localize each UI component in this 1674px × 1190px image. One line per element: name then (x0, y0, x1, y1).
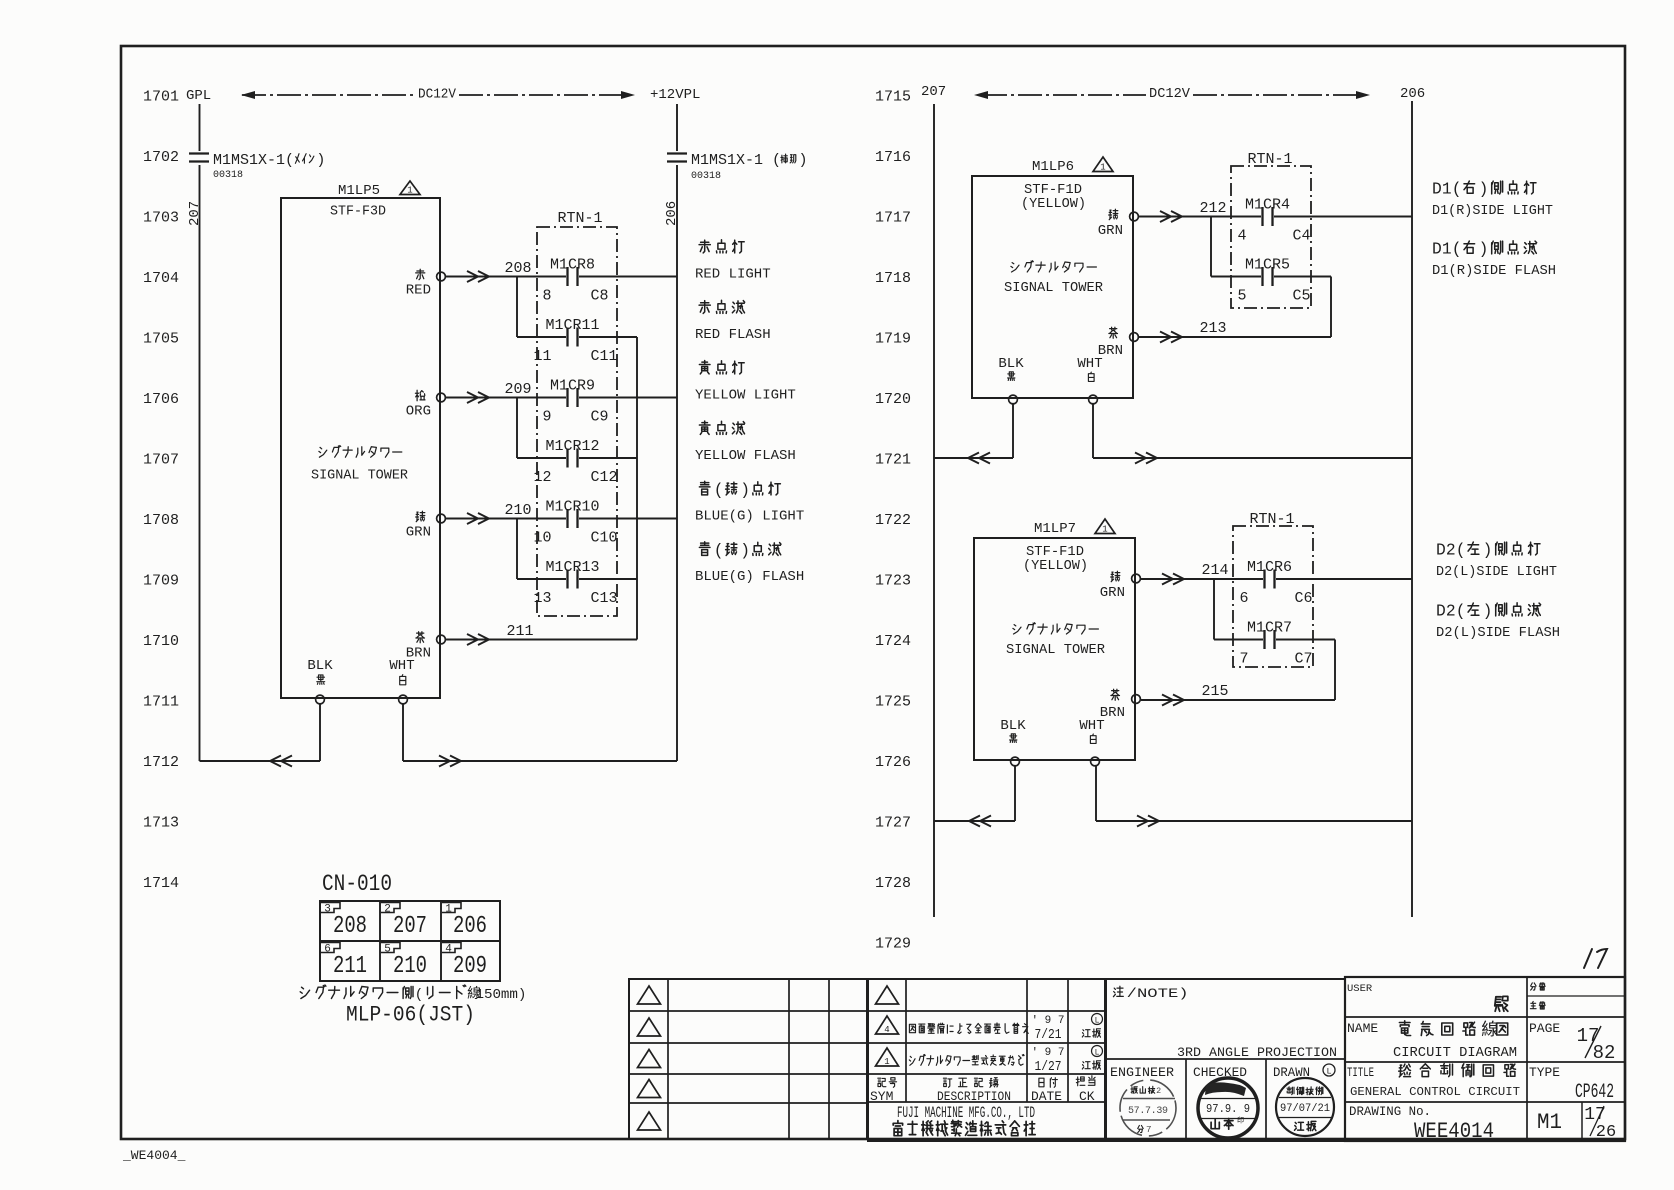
svg-text:GRN: GRN (406, 525, 431, 541)
svg-text:206: 206 (1400, 86, 1425, 102)
svg-text:): ) (740, 480, 750, 499)
svg-text:BLUE(G) FLASH: BLUE(G) FLASH (695, 569, 804, 585)
svg-text:1721: 1721 (875, 452, 911, 469)
svg-text:SIGNAL TOWER: SIGNAL TOWER (1006, 642, 1106, 658)
svg-text:RED LIGHT: RED LIGHT (695, 267, 771, 283)
svg-text:8: 8 (542, 288, 551, 305)
svg-text:M1LP7: M1LP7 (1034, 521, 1076, 537)
svg-text:00318: 00318 (691, 171, 721, 182)
svg-text:M1CR13: M1CR13 (545, 559, 599, 576)
svg-text:57.7.39: 57.7.39 (1128, 1106, 1168, 1117)
svg-text:1718: 1718 (875, 270, 911, 287)
svg-text:): ) (316, 152, 325, 169)
svg-text:7: 7 (1239, 651, 1248, 668)
svg-text:5: 5 (384, 944, 391, 956)
svg-text:(: ( (1452, 239, 1462, 258)
svg-text:CIRCUIT DIAGRAM: CIRCUIT DIAGRAM (1393, 1045, 1517, 1061)
svg-text:3RD ANGLE PROJECTION: 3RD ANGLE PROJECTION (1177, 1045, 1337, 1060)
svg-text:10: 10 (533, 530, 551, 547)
svg-text:97/07/21: 97/07/21 (1280, 1103, 1330, 1115)
svg-text:1707: 1707 (143, 452, 179, 469)
svg-text:C7: C7 (1295, 651, 1313, 668)
svg-text:GRN: GRN (1098, 223, 1123, 239)
svg-text:WHT: WHT (1079, 718, 1104, 734)
svg-text:m: m (509, 987, 518, 1003)
svg-text:C5: C5 (1293, 288, 1311, 305)
svg-text:C9: C9 (591, 409, 609, 426)
svg-text:C8: C8 (591, 288, 609, 305)
svg-text:00318: 00318 (213, 170, 243, 181)
svg-text:+12VPL: +12VPL (650, 87, 700, 103)
svg-text:D: D (1432, 239, 1442, 258)
svg-text:2: 2 (384, 904, 391, 916)
svg-text:RTN-1: RTN-1 (557, 210, 602, 227)
svg-text:4: 4 (884, 1025, 889, 1035)
svg-text:26: 26 (1596, 1123, 1616, 1142)
svg-text:GRN: GRN (1100, 585, 1125, 601)
svg-text:82: 82 (1593, 1042, 1616, 1064)
svg-text:M1CR8: M1CR8 (550, 257, 595, 274)
svg-text:L: L (1095, 1017, 1100, 1026)
svg-text:DRAWING No.: DRAWING No. (1349, 1105, 1431, 1119)
svg-text:m: m (501, 987, 510, 1003)
svg-text:C13: C13 (591, 590, 618, 607)
svg-text:BLK: BLK (1000, 718, 1026, 734)
svg-text:1729: 1729 (875, 936, 911, 953)
svg-text:1: 1 (1100, 163, 1105, 173)
svg-text:209: 209 (504, 381, 531, 398)
svg-text:' 9 7: ' 9 7 (1031, 1015, 1064, 1027)
svg-text:(YELLOW): (YELLOW) (1021, 196, 1086, 212)
svg-text:(YELLOW): (YELLOW) (1023, 558, 1088, 574)
svg-text:1705: 1705 (143, 331, 179, 348)
svg-text:M1LP5: M1LP5 (338, 183, 380, 199)
svg-text:1709: 1709 (143, 573, 179, 590)
svg-text:1704: 1704 (143, 270, 179, 287)
svg-text:SYM: SYM (870, 1089, 893, 1104)
svg-text:L: L (1095, 1049, 1100, 1058)
svg-text:215: 215 (1201, 683, 1228, 700)
svg-text:1708: 1708 (143, 512, 179, 529)
svg-text:_WE4004_: _WE4004_ (122, 1148, 186, 1163)
svg-text:WHT: WHT (389, 658, 414, 674)
svg-text:D: D (1432, 179, 1442, 198)
svg-text:213: 213 (1199, 320, 1226, 337)
svg-text:FUJI MACHINE MFG.CO., LTD: FUJI MACHINE MFG.CO., LTD (897, 1104, 1035, 1122)
svg-text:1726: 1726 (875, 754, 911, 771)
svg-text:RED: RED (406, 283, 431, 299)
svg-text:7: 7 (1146, 1124, 1152, 1135)
svg-text:1723: 1723 (875, 573, 911, 590)
svg-text:RED FLASH: RED FLASH (695, 327, 771, 343)
svg-text:1: 1 (1102, 525, 1107, 535)
svg-text:208: 208 (333, 913, 367, 940)
svg-text:1: 1 (884, 1057, 889, 1067)
svg-text:D1(R)SIDE LIGHT: D1(R)SIDE LIGHT (1432, 203, 1553, 219)
svg-text:DC12V: DC12V (1149, 87, 1191, 102)
svg-text:DATE: DATE (1031, 1089, 1062, 1104)
svg-text:D2(L)SIDE LIGHT: D2(L)SIDE LIGHT (1436, 564, 1557, 580)
svg-text:12: 12 (533, 469, 551, 486)
svg-text:1716: 1716 (875, 149, 911, 166)
svg-text:1710: 1710 (143, 633, 179, 650)
svg-text:L: L (1326, 1067, 1331, 1077)
svg-text:3: 3 (324, 904, 331, 916)
svg-text:M1MS1X-1(: M1MS1X-1( (213, 152, 294, 169)
svg-text:1720: 1720 (875, 391, 911, 408)
svg-text:YELLOW LIGHT: YELLOW LIGHT (695, 388, 796, 404)
svg-text:M1CR4: M1CR4 (1245, 197, 1290, 214)
svg-text:1719: 1719 (875, 331, 911, 348)
svg-text:4: 4 (445, 944, 452, 956)
svg-text:97.9. 9: 97.9. 9 (1206, 1103, 1250, 1116)
svg-text:M1LP6: M1LP6 (1032, 159, 1074, 175)
svg-text:1728: 1728 (875, 875, 911, 892)
svg-text:1713: 1713 (143, 815, 179, 832)
svg-text:): ) (1483, 540, 1493, 559)
svg-text:' 9 7: ' 9 7 (1031, 1047, 1064, 1059)
svg-text:5: 5 (484, 987, 493, 1003)
svg-text:CN-010: CN-010 (322, 871, 392, 897)
svg-text:7/21: 7/21 (1035, 1027, 1062, 1043)
svg-text:1: 1 (407, 186, 412, 196)
svg-text:D2(L)SIDE FLASH: D2(L)SIDE FLASH (1436, 625, 1560, 641)
svg-text:1: 1 (476, 987, 485, 1003)
svg-text:1712: 1712 (143, 754, 179, 771)
svg-text:(: ( (415, 987, 424, 1003)
svg-text:印: 印 (1237, 1117, 1244, 1126)
svg-text:214: 214 (1201, 562, 1228, 579)
svg-text:BLK: BLK (307, 658, 333, 674)
svg-text:D: D (1436, 601, 1446, 620)
svg-text:GENERAL CONTROL CIRCUIT: GENERAL CONTROL CIRCUIT (1350, 1085, 1520, 1099)
svg-text:1706: 1706 (143, 391, 179, 408)
svg-text:(: ( (714, 541, 724, 560)
svg-text:2: 2 (1156, 1086, 1161, 1096)
svg-text:M1: M1 (1537, 1110, 1562, 1135)
svg-text:GPL: GPL (186, 88, 211, 104)
svg-text:4: 4 (1237, 228, 1246, 245)
svg-text:M1CR11: M1CR11 (545, 317, 599, 334)
svg-text:M1CR12: M1CR12 (545, 438, 599, 455)
svg-text:WEE4014: WEE4014 (1414, 1119, 1494, 1144)
svg-text:1725: 1725 (875, 694, 911, 711)
svg-text:6: 6 (1239, 590, 1248, 607)
svg-text:M1MS1X-1 (: M1MS1X-1 ( (691, 152, 781, 169)
svg-text:USER: USER (1347, 983, 1373, 995)
svg-text:210: 210 (504, 502, 531, 519)
svg-text:6: 6 (324, 944, 331, 956)
svg-text:BLK: BLK (998, 356, 1024, 372)
svg-text:9: 9 (542, 409, 551, 426)
svg-text:ORG: ORG (406, 404, 431, 420)
svg-text:): ) (1479, 179, 1489, 198)
svg-text:C12: C12 (591, 469, 618, 486)
svg-text:WHT: WHT (1077, 356, 1102, 372)
svg-text:M1CR7: M1CR7 (1247, 620, 1292, 637)
svg-text:C10: C10 (591, 530, 618, 547)
svg-text:(: ( (1456, 540, 1466, 559)
svg-text:207: 207 (393, 913, 427, 940)
svg-text:M1CR5: M1CR5 (1245, 257, 1290, 274)
svg-text:1722: 1722 (875, 512, 911, 529)
svg-text:(: ( (1456, 601, 1466, 620)
svg-text:M1CR6: M1CR6 (1247, 559, 1292, 576)
svg-text:PAGE: PAGE (1529, 1021, 1560, 1036)
svg-text:0: 0 (493, 987, 502, 1003)
svg-text:1711: 1711 (143, 694, 179, 711)
svg-text:): ) (1479, 239, 1489, 258)
svg-text:212: 212 (1199, 200, 1226, 217)
svg-text:MLP-06(JST): MLP-06(JST) (346, 1003, 475, 1028)
svg-text:206: 206 (453, 913, 487, 940)
svg-text:CP642: CP642 (1575, 1081, 1614, 1104)
svg-text:): ) (740, 541, 750, 560)
svg-text:1727: 1727 (875, 815, 911, 832)
svg-text:): ) (798, 152, 807, 169)
svg-text:): ) (1483, 601, 1493, 620)
svg-text:1: 1 (445, 904, 452, 916)
svg-text:TITLE: TITLE (1347, 1065, 1374, 1080)
svg-text:210: 210 (393, 953, 427, 980)
svg-text:BLUE(G) LIGHT: BLUE(G) LIGHT (695, 509, 804, 525)
svg-text:206: 206 (664, 201, 680, 226)
svg-text:C11: C11 (591, 348, 618, 365)
svg-text:1714: 1714 (143, 875, 179, 892)
svg-text:1724: 1724 (875, 633, 911, 650)
svg-text:): ) (518, 987, 527, 1003)
svg-text:1717: 1717 (875, 210, 911, 227)
svg-text:C4: C4 (1293, 228, 1311, 245)
svg-text:YELLOW FLASH: YELLOW FLASH (695, 448, 796, 464)
svg-text:STF-F3D: STF-F3D (330, 204, 386, 220)
svg-text:TYPE: TYPE (1529, 1065, 1560, 1080)
svg-text:SIGNAL TOWER: SIGNAL TOWER (1004, 280, 1104, 296)
svg-text:CK: CK (1079, 1089, 1095, 1104)
svg-text:/NOTE): /NOTE) (1127, 986, 1189, 1001)
svg-text:1703: 1703 (143, 210, 179, 227)
svg-text:NAME: NAME (1347, 1021, 1378, 1036)
svg-text:11: 11 (533, 348, 551, 365)
svg-text:DC12V: DC12V (418, 88, 457, 103)
svg-text:M1CR9: M1CR9 (550, 378, 595, 395)
svg-text:208: 208 (504, 260, 531, 277)
svg-text:D1(R)SIDE FLASH: D1(R)SIDE FLASH (1432, 263, 1556, 279)
svg-text:2: 2 (1446, 540, 1456, 559)
svg-text:1/27: 1/27 (1035, 1059, 1062, 1075)
svg-text:DESCRIPTION: DESCRIPTION (937, 1089, 1011, 1104)
svg-text:13: 13 (533, 590, 551, 607)
svg-text:1: 1 (1442, 239, 1452, 258)
svg-text:207: 207 (921, 84, 946, 100)
svg-text:C6: C6 (1295, 590, 1313, 607)
svg-text:1701: 1701 (143, 89, 179, 106)
svg-text:1: 1 (1442, 179, 1452, 198)
svg-text:(: ( (714, 480, 724, 499)
svg-text:211: 211 (506, 623, 533, 640)
svg-text:D: D (1436, 540, 1446, 559)
svg-text:(: ( (1452, 179, 1462, 198)
svg-text:ENGINEER: ENGINEER (1110, 1065, 1174, 1080)
svg-text:5: 5 (1237, 288, 1246, 305)
svg-text:211: 211 (333, 953, 367, 980)
svg-text:207: 207 (187, 201, 203, 226)
svg-text:1715: 1715 (875, 89, 911, 106)
svg-text:209: 209 (453, 953, 487, 980)
svg-text:SIGNAL TOWER: SIGNAL TOWER (311, 468, 409, 484)
svg-text:M1CR10: M1CR10 (545, 499, 599, 516)
svg-text:1702: 1702 (143, 149, 179, 166)
svg-text:2: 2 (1446, 601, 1456, 620)
